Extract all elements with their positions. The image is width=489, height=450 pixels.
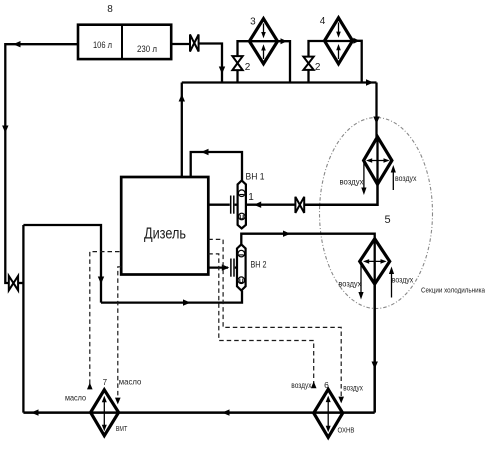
arrow left on bottom wire near corner <box>31 409 39 415</box>
internal arrow down diamond4 <box>338 23 340 33</box>
svg-text:воздух: воздух <box>291 381 311 390</box>
wire valve to pump BH1 <box>246 204 296 206</box>
svg-text:7: 7 <box>103 378 108 387</box>
internal arrow up diamond3 <box>263 50 265 59</box>
svg-text:масло: масло <box>119 377 142 387</box>
wire valve2a top to diamond3 <box>238 41 250 56</box>
air out line lower section (left) <box>360 263 362 293</box>
internal double arrow OHNV <box>327 400 329 427</box>
arrow right on y233.7 <box>283 231 291 237</box>
wire valve2b bottom to manifold <box>307 70 309 83</box>
svg-text:6: 6 <box>324 380 329 390</box>
svg-text:4: 4 <box>320 16 326 27</box>
tank 8 box <box>78 25 171 59</box>
riser engine top to manifold x181.8 <box>181 83 183 180</box>
arrow right diamond3 out <box>281 38 288 44</box>
wire coupling to pump BH1 <box>235 204 238 206</box>
valve 2 (right, vertical pipe) <box>303 57 313 70</box>
air out line top section (left) <box>363 161 365 188</box>
wire diamond3 out to manifold <box>278 41 291 82</box>
svg-text:ВН 2: ВН 2 <box>251 260 267 270</box>
coupling BH1 bars <box>230 196 232 214</box>
wire second riser x23 <box>22 225 24 413</box>
arrow left on top-left wire <box>13 41 21 47</box>
svg-text:масло: масло <box>65 393 86 403</box>
svg-text:1: 1 <box>248 192 254 203</box>
wire lower section down to bottom line <box>373 284 376 413</box>
radiator sections ellipse <box>320 118 433 309</box>
manifold wire y82.5 <box>182 81 377 83</box>
svg-text:2: 2 <box>315 62 321 73</box>
bottom main wire <box>23 411 374 414</box>
air cooler OHNV diamond 6 <box>314 389 343 437</box>
wire left riser from tank to valve <box>5 44 78 283</box>
arrow up oil return <box>87 383 93 390</box>
svg-text:ВМТ: ВМТ <box>116 426 128 433</box>
svg-text:5: 5 <box>384 214 390 226</box>
wire tank to valve top <box>171 43 190 45</box>
pump BH2 bottom circle <box>238 277 245 284</box>
radiator top section diamond <box>364 137 392 184</box>
air in line top section (right) <box>392 170 394 190</box>
heater section 3 diamond <box>249 19 277 64</box>
svg-text:2: 2 <box>245 62 251 73</box>
arrow down on x101 riser <box>98 277 104 285</box>
arrow left on bottom wire center <box>222 409 230 415</box>
arrow down on x222 <box>219 67 225 75</box>
heater section 4 diamond <box>325 18 353 64</box>
arrow up air return <box>311 381 317 388</box>
internal double arrow lower section <box>365 260 385 262</box>
arrow right on y302.6 <box>183 299 191 305</box>
arrow left on branch y152 <box>201 149 209 155</box>
flow line through lower section <box>374 239 376 284</box>
wire top section to pump line <box>304 184 377 205</box>
arrow up on riser <box>179 94 185 102</box>
svg-text:воздух: воздух <box>338 280 361 289</box>
valve top (horizontal pipe, right of tank) <box>190 35 199 52</box>
svg-text:воздух: воздух <box>343 384 363 393</box>
wire valve to manifold drop x222 <box>199 44 222 83</box>
valve 2 (left, vertical pipe) <box>232 56 242 70</box>
wire engine to coupling BH1 <box>208 204 230 206</box>
pump BH1 bottom circle <box>238 213 245 220</box>
air in line lower section (right) <box>391 273 393 298</box>
arrow down air supply <box>338 397 344 404</box>
pump BH2 top circle <box>238 250 245 257</box>
arrow right on manifold <box>366 79 374 85</box>
svg-text:воздух: воздух <box>392 276 413 285</box>
wire pump BH2 top to radiator lower section <box>241 234 374 245</box>
oil cooler VMT diamond 7 <box>91 390 119 436</box>
wire coupling to pump BH2 <box>235 266 237 268</box>
pump BH1 top circle <box>238 190 245 197</box>
arrow right on BH2 inlet <box>222 264 230 270</box>
svg-text:3: 3 <box>250 17 256 28</box>
svg-text:230 л: 230 л <box>137 44 157 55</box>
wire y302.6 to pump BH2 bottom <box>101 291 242 303</box>
wire valve2a bottom to manifold <box>236 70 238 82</box>
valve left (horizontal pipe) <box>9 276 18 290</box>
pump BH1 capsule <box>238 181 246 229</box>
pump BH2 capsule <box>237 244 246 290</box>
flow line through diamond 3 <box>249 40 277 42</box>
oil return dashed line <box>90 252 120 388</box>
internal double arrow VMT <box>103 400 105 426</box>
internal arrow up diamond4 <box>338 50 340 60</box>
flow line through top section <box>376 137 378 184</box>
radiator lower section diamond <box>360 239 390 284</box>
arrow down on right drop <box>372 362 378 370</box>
arrow left on BH1 suction <box>254 202 262 208</box>
svg-text:ВН 1: ВН 1 <box>246 172 265 182</box>
radiator feed wire <box>375 83 377 138</box>
coupling BH2 bars <box>230 259 232 277</box>
wire valve to second riser <box>18 282 23 284</box>
svg-text:воздух: воздух <box>340 178 364 187</box>
svg-text:Дизель: Дизель <box>144 226 186 243</box>
branch pump BH1 top to engine top <box>191 152 242 181</box>
engine block <box>121 177 208 275</box>
internal arrow down diamond3 <box>263 24 265 34</box>
arrow down on left riser <box>2 126 8 134</box>
arrow down oil supply <box>115 398 121 405</box>
wire engine to coupling BH2 <box>208 266 228 268</box>
oil supply dashed line <box>118 267 121 399</box>
wire y225 to engine riser <box>23 225 101 303</box>
svg-text:106 л: 106 л <box>93 40 112 51</box>
arrow right diamond4 out <box>353 38 360 44</box>
air return dashed line from OHNV <box>208 254 313 388</box>
flow line through diamond 4 <box>325 40 353 42</box>
svg-text:воздух: воздух <box>395 174 417 183</box>
internal double arrow top section <box>368 160 388 162</box>
valve radiator line <box>295 197 304 213</box>
arrow down radiator feed <box>373 117 379 125</box>
svg-text:Секции холодильника: Секции холодильника <box>421 286 486 295</box>
air supply dashed line to OHNV <box>208 239 341 397</box>
wire valve2b top to diamond4 <box>309 41 325 57</box>
tank divider <box>121 25 123 59</box>
svg-text:8: 8 <box>107 4 113 15</box>
wire diamond4 out to manifold <box>353 41 362 83</box>
svg-text:ОХНВ: ОХНВ <box>338 427 355 434</box>
